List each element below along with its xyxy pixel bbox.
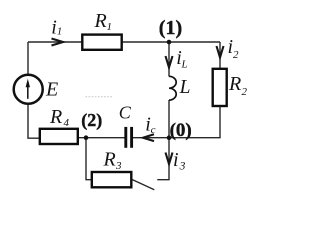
svg-text:1: 1 <box>107 21 113 33</box>
svg-text:3: 3 <box>115 160 122 172</box>
svg-text:C: C <box>119 103 132 123</box>
svg-text:(1): (1) <box>159 17 182 39</box>
svg-text:L: L <box>181 59 188 71</box>
svg-text:2: 2 <box>233 49 239 61</box>
node dot 0 <box>167 135 172 140</box>
wire R3 branch left <box>86 138 92 180</box>
wire bottom middle R4 to capacitor <box>78 137 125 139</box>
svg-text:i: i <box>173 149 179 171</box>
wire capacitor to node 0 and right corner <box>133 106 220 138</box>
svg-text:3: 3 <box>179 161 186 173</box>
capacitor C plates <box>124 127 127 148</box>
wire inductor branch upper <box>168 42 170 77</box>
svg-text:1: 1 <box>57 26 63 38</box>
svg-text:R: R <box>94 10 107 32</box>
resistor R2 <box>213 69 227 106</box>
arrow iL <box>166 56 173 68</box>
svg-text:L: L <box>179 77 191 98</box>
faint scan artifact dotted line <box>86 96 113 98</box>
source E <box>14 75 43 104</box>
switch blade S <box>132 179 155 190</box>
svg-text:c: c <box>151 124 156 136</box>
resistor R1 <box>82 35 121 50</box>
arrow i1 <box>52 39 64 46</box>
wire left vertical upper <box>27 42 29 75</box>
node dot 2 <box>84 135 89 140</box>
wire node 0 down to switch stub <box>157 138 169 180</box>
svg-text:(0): (0) <box>170 120 192 141</box>
svg-text:R: R <box>103 149 116 171</box>
svg-text:4: 4 <box>64 117 70 129</box>
svg-text:R: R <box>228 73 241 95</box>
wire inductor branch lower <box>168 100 170 138</box>
arrow ic <box>143 134 154 141</box>
svg-text:(2): (2) <box>81 110 102 131</box>
svg-text:E: E <box>45 78 58 100</box>
arrow i2 <box>217 46 224 58</box>
inductor L coil <box>169 76 176 100</box>
resistor R4 <box>40 129 78 144</box>
wire left vertical lower <box>28 104 40 138</box>
wire top horizontal <box>28 41 220 43</box>
svg-text:R: R <box>49 106 62 128</box>
svg-text:2: 2 <box>242 86 248 98</box>
resistor R3 <box>92 172 132 187</box>
node dot 1 <box>167 40 172 45</box>
wire right vertical upper <box>219 42 221 69</box>
arrow i3 <box>166 153 173 165</box>
